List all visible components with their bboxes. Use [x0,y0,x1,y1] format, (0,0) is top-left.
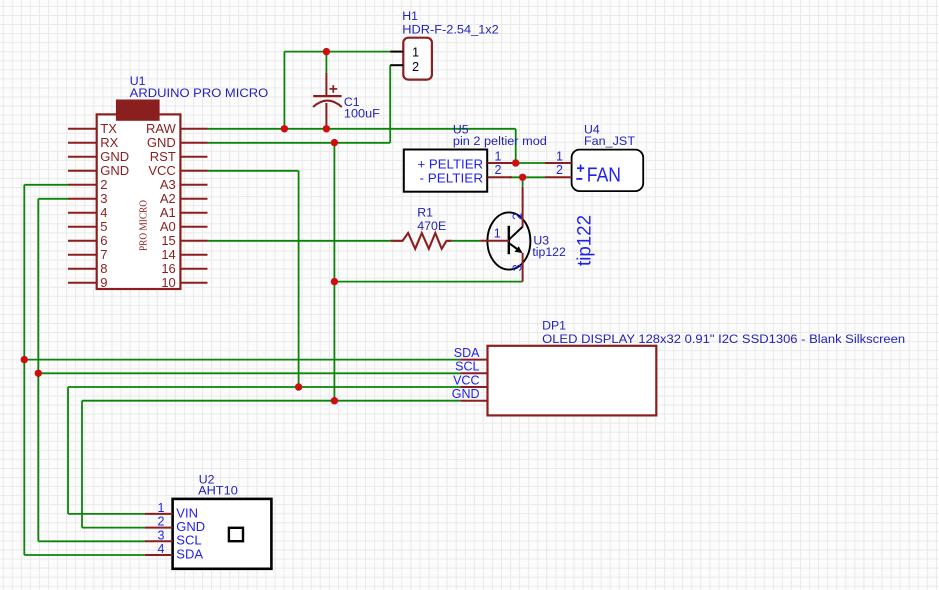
node junction GND emitter [331,278,338,285]
wire R1 to U3 base [452,240,481,242]
svg-text:3: 3 [100,191,107,206]
node junction C1 top [323,48,330,55]
svg-text:RAW: RAW [146,121,177,136]
U1 right pin names [146,121,177,290]
svg-text:tip122: tip122 [532,245,566,259]
svg-text:A3: A3 [160,177,176,192]
svg-text:SCL: SCL [455,360,479,374]
svg-text:RST: RST [150,149,176,164]
capacitor C1 polarized [313,52,342,129]
svg-text:GND: GND [452,387,480,401]
component U4 connector body [545,150,643,192]
svg-text:2: 2 [510,213,525,220]
svg-text:SDA: SDA [454,346,480,360]
svg-text:9: 9 [100,275,107,290]
svg-text:2: 2 [100,177,107,192]
wire GND bus vertical x=334 [333,143,335,401]
svg-text:- PELTIER: - PELTIER [420,170,484,185]
U4 minus mark [576,178,582,180]
svg-text:FAN: FAN [587,164,621,186]
wire emitter GND horizontal [334,281,522,283]
wire net GND horizontal to DP1 [82,400,460,402]
wire net VCC vertical x=68 [67,387,69,514]
component H1 connector body [390,38,432,80]
svg-text:H1: H1 [402,9,418,23]
wire collector to pin2 junction [522,177,524,187]
svg-text:OLED DISPLAY 128x32 0.91" I2C: OLED DISPLAY 128x32 0.91" I2C SSD1306 - … [542,332,905,346]
wire net GND vertical x=82 [81,401,83,528]
svg-text:1: 1 [556,149,563,163]
svg-text:GND: GND [147,135,176,150]
svg-text:4: 4 [158,542,165,556]
wire net SDA horizontal to DP1 [24,359,460,361]
svg-text:470E: 470E [417,219,446,233]
svg-text:VCC: VCC [453,373,479,387]
svg-text:2: 2 [158,515,165,529]
wire net RAW vertical down to U5 pin 1 [515,129,517,163]
U3 base pin stub [480,240,509,242]
wire U1 pin3 row to SCL bus [38,198,68,200]
svg-text:14: 14 [161,247,175,262]
svg-text:R1: R1 [417,206,433,220]
resistor R1 zigzag [391,233,452,249]
svg-text:2: 2 [495,163,502,177]
U1 left pin names [100,121,129,290]
svg-text:5: 5 [100,219,107,234]
svg-text:ARDUINO PRO MICRO: ARDUINO PRO MICRO [130,86,269,100]
node junction U5 pin1 [512,159,519,166]
node junction RAW/H1 [281,125,288,132]
svg-text:1: 1 [158,501,165,515]
wire SCL to U2 SCL [38,540,145,542]
svg-text:tip122: tip122 [575,215,596,266]
transistor U3 tip122 symbol [487,212,530,269]
wire net RAW top horizontal to H1 pin 1 [284,51,390,53]
component DP1 OLED display body [460,346,656,416]
svg-text:1: 1 [494,227,501,241]
node junction GND DP1 [331,397,338,404]
svg-text:2: 2 [412,60,419,74]
wire U1 pin2 row to SDA bus [24,184,68,186]
U4 plus mark [577,165,584,172]
svg-text:GND: GND [100,149,129,164]
svg-text:pin 2 peltier mod: pin 2 peltier mod [453,134,547,148]
wire U5 pin2 row to U4 pin2 [509,176,545,178]
svg-text:100uF: 100uF [344,107,380,121]
node junction SCL [35,370,42,377]
svg-text:4: 4 [100,205,107,220]
svg-text:8: 8 [100,261,107,276]
U5 pin 1 stub [488,162,513,164]
wire net SCL horizontal to DP1 [38,372,460,374]
node junction U5 pin2 [519,174,526,181]
wire net RAW segment U5 pin1 to U4 pin1 [509,162,545,164]
U5 pin 2 stub [488,176,513,178]
wire net SDA vertical x=24 [23,185,25,555]
U3 collector pin stub [522,187,524,227]
wire net VCC vertical down to DP1 VCC row [298,171,300,387]
wire net GND: U1 GND to H1 pin2 corner [208,142,391,144]
svg-text:GND: GND [100,163,129,178]
svg-text:3: 3 [158,528,165,542]
svg-text:SDA: SDA [176,546,203,561]
svg-text:A0: A0 [160,219,176,234]
svg-text:16: 16 [161,261,175,276]
svg-text:10: 10 [161,275,175,290]
component U5 connector body [404,150,487,192]
svg-text:3: 3 [510,264,525,271]
svg-text:AHT10: AHT10 [198,484,238,498]
wire VCC to U2 VIN [68,513,145,515]
svg-text:RX: RX [100,135,118,150]
wire net SCL vertical x=38 [37,199,39,542]
wire net D15: U1 pin15 to R1 [208,240,391,242]
wire net RAW vertical up to H1 branch [283,52,285,129]
svg-text:TX: TX [100,121,117,136]
wire net VCC: U1 VCC to corner [208,170,299,172]
wire net VCC horizontal to DP1 [68,386,460,388]
svg-text:DP1: DP1 [542,319,566,333]
wire SDA to U2 SDA [24,554,145,556]
component U2 AHT10 body [145,499,271,569]
svg-text:1: 1 [495,149,502,163]
wire net GND vertical H1 pin2 down [389,65,391,143]
svg-text:A1: A1 [160,205,176,220]
wire GND to U2 GND [82,527,145,529]
svg-text:7: 7 [100,247,107,262]
node junction GND bus top [331,139,338,146]
svg-text:A2: A2 [160,191,176,206]
svg-text:HDR-F-2.54_1x2: HDR-F-2.54_1x2 [402,23,499,37]
svg-text:Fan_JST: Fan_JST [584,134,635,148]
wire net RAW: U1 RAW to H1/C1/U5 corner [208,128,516,130]
node junction C1 bottom [323,125,330,132]
component U1 ARDUINO PRO MICRO body [68,100,208,290]
node junction VCC DP1 [295,383,302,390]
node junction SDA [21,356,28,363]
svg-text:2: 2 [556,163,563,177]
U3 emitter pin stub [522,253,524,282]
svg-text:PRO MICRO: PRO MICRO [137,200,149,251]
svg-text:6: 6 [100,233,107,248]
svg-text:1: 1 [412,45,419,59]
svg-text:15: 15 [161,233,175,248]
svg-text:VCC: VCC [148,163,175,178]
